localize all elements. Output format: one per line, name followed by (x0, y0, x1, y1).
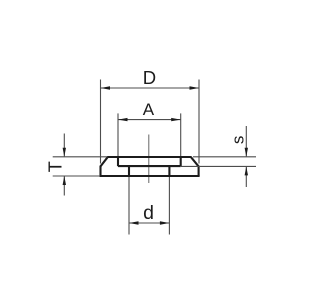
s dimension line lower (245, 167, 247, 187)
svg-text:s: s (229, 136, 248, 145)
svg-text:T: T (46, 161, 66, 172)
A extension line right (180, 113, 182, 156)
washer outline top edge (108, 156, 192, 158)
D arrow right (190, 86, 200, 89)
T dimension line lower (63, 176, 65, 195)
D dimension line (101, 87, 200, 89)
A arrow left (118, 118, 128, 121)
svg-text:D: D (143, 67, 156, 88)
A dimension line (118, 119, 181, 121)
washer right chamfer (191, 157, 199, 167)
T extension line bottom (53, 175, 100, 177)
d extension line right (168, 177, 170, 235)
A arrow right (171, 118, 181, 121)
washer right edge (198, 166, 200, 176)
T arrow bottom (63, 176, 66, 185)
D extension line right (198, 80, 200, 164)
d extension line left (128, 177, 130, 235)
s extension line bottom (181, 165, 256, 167)
s arrow bottom (245, 166, 248, 175)
s dimension line upper (245, 126, 247, 156)
D extension line left (100, 80, 102, 164)
washer left edge (99, 166, 101, 176)
s arrow top (245, 148, 248, 157)
hole right wall (168, 166, 170, 176)
d arrow right (160, 221, 170, 224)
recess floor (118, 165, 181, 167)
centerline (148, 135, 150, 184)
s extension line top (193, 156, 256, 158)
washer bottom edge (100, 175, 200, 177)
svg-text:A: A (143, 100, 155, 119)
T arrow top (63, 148, 66, 157)
d arrow left (129, 221, 139, 224)
T extension line top (53, 156, 108, 158)
svg-text:d: d (143, 202, 154, 224)
A extension line left (117, 113, 119, 156)
recess right wall (180, 157, 182, 167)
washer left chamfer (101, 157, 109, 167)
D arrow left (101, 86, 111, 89)
recess left wall (117, 157, 119, 167)
d dimension line (129, 222, 169, 224)
T dimension line upper (63, 134, 65, 157)
hole left wall (128, 166, 130, 176)
